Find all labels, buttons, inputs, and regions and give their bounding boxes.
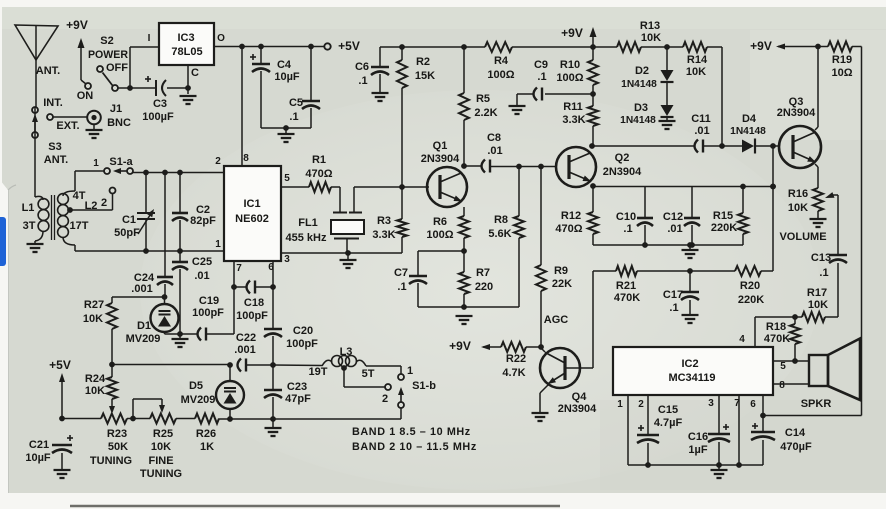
svg-text:C12: C12 [663, 211, 683, 223]
svg-text:1N4148: 1N4148 [621, 79, 657, 90]
label R10 [560, 59, 580, 71]
label 3T [23, 220, 36, 232]
svg-text:IC1: IC1 [243, 198, 260, 210]
svg-text:O: O [217, 33, 225, 44]
svg-text:R16: R16 [788, 188, 808, 200]
svg-text:C20: C20 [293, 325, 313, 337]
svg-text:3T: 3T [23, 220, 36, 232]
svg-text:R7: R7 [476, 267, 490, 279]
value 10K of R27 [83, 313, 103, 325]
label C17 [663, 289, 683, 301]
label D5 [189, 380, 203, 392]
wire throw1 to L2 top [75, 171, 104, 191]
part 2N3904 of Q2 [603, 166, 642, 178]
label OFF [106, 62, 128, 74]
IC2 pin 8 label [779, 380, 785, 391]
label C23 [287, 381, 307, 393]
label J1 [110, 103, 122, 115]
label C16 [688, 431, 708, 443]
svg-text:10µF: 10µF [25, 452, 51, 464]
IC3 pin C label [191, 67, 199, 79]
switch S1-a common [127, 168, 133, 174]
switch S3 bottom contact [32, 132, 38, 138]
svg-text:8: 8 [779, 380, 785, 391]
svg-text:C3: C3 [153, 98, 167, 110]
value 10ohm [831, 67, 852, 79]
resistor R7 [459, 251, 469, 307]
capacitor C5 [302, 47, 320, 129]
label R11 [563, 101, 583, 113]
IC1 part number NE602 [235, 213, 269, 225]
value .01 of C11 [694, 125, 709, 137]
value 10K of R16 [788, 202, 808, 214]
wire IC1 pin7 column [231, 261, 237, 334]
svg-text:Q2: Q2 [615, 152, 630, 164]
svg-text:MV209: MV209 [126, 333, 161, 345]
value .01 of C25 [194, 270, 209, 282]
capacitor C15 [637, 395, 659, 465]
+9V arrow [78, 38, 87, 84]
transistor Q1 [427, 167, 467, 207]
switch S1-a throw 2 [110, 188, 116, 194]
label C14 [785, 427, 806, 439]
label Q1 [433, 140, 448, 152]
value 1K [200, 441, 214, 453]
IC2 pin 5 label [780, 361, 786, 372]
node R6/R7 junction [461, 248, 467, 254]
resistor R14 [683, 42, 707, 52]
resistor R20 [735, 266, 761, 276]
label 2 of S1-b [382, 393, 388, 405]
wire IC1 pin5 [281, 186, 309, 188]
wire tuning line [109, 362, 229, 368]
svg-text:C6: C6 [355, 61, 369, 73]
svg-text:J1: J1 [110, 103, 122, 115]
svg-text:R13: R13 [640, 20, 660, 32]
svg-text:C17: C17 [663, 289, 683, 301]
IC2 pin 7 label [734, 398, 740, 409]
label Q3 [789, 96, 804, 108]
IC1 pin 5 label [284, 173, 290, 184]
svg-text:.01: .01 [194, 270, 209, 282]
svg-text:R11: R11 [563, 101, 583, 113]
wire Q4 emitter to ground [540, 385, 548, 412]
svg-text:.001: .001 [234, 344, 255, 356]
svg-text:1: 1 [617, 399, 623, 410]
label R13 [640, 20, 660, 32]
svg-text:R17: R17 [807, 287, 827, 299]
ground under C21 [54, 470, 71, 478]
diode D3 [661, 83, 674, 117]
ground under C6 [372, 93, 389, 101]
svg-text:SPKR: SPKR [801, 398, 832, 410]
label BAND 2 [352, 441, 477, 453]
svg-text:R18: R18 [766, 321, 786, 333]
capacitor C7 [409, 251, 464, 307]
label R20 [740, 280, 760, 292]
wire R21 to C17 node [637, 268, 735, 274]
value 10uF [274, 71, 300, 83]
value 50pF [114, 227, 140, 239]
switch S2 ON contact [85, 83, 91, 89]
transistor Q4 [540, 348, 580, 388]
wire Q2 collector node [589, 143, 595, 149]
capacitor C10 [637, 186, 653, 245]
label R3 [377, 215, 391, 227]
label R24 [85, 373, 106, 385]
value 1N4148 of D3 [620, 115, 656, 126]
label 5T [362, 368, 375, 380]
svg-text:R14: R14 [687, 54, 708, 66]
label C2 [196, 204, 210, 216]
wire IC2 pin1 [628, 395, 763, 468]
resistor R19 [828, 42, 852, 52]
value .1 of C13 [819, 267, 828, 279]
wire IC2 pin7 [738, 395, 740, 465]
resistor R10 [588, 47, 598, 94]
value 100pF of C18 [236, 310, 268, 322]
label 1 of S1-a [93, 158, 99, 169]
inductor L1 [35, 107, 49, 243]
connector J1 BNC [87, 111, 101, 125]
label C3 [153, 98, 167, 110]
diode D2 [661, 47, 674, 82]
svg-text:100pF: 100pF [236, 310, 268, 322]
svg-text:TUNING: TUNING [140, 468, 182, 480]
label +5V [338, 39, 360, 53]
wire +5V rail [214, 44, 324, 50]
svg-text:+9V: +9V [66, 18, 88, 32]
svg-text:5: 5 [780, 361, 786, 372]
svg-text:19T: 19T [309, 366, 328, 378]
value .1 of C5 [289, 111, 298, 123]
value 82pF [190, 215, 216, 227]
capacitor C14 [751, 415, 775, 465]
svg-text:1K: 1K [200, 441, 214, 453]
svg-text:NE602: NE602 [235, 213, 269, 225]
capacitor C16 [708, 395, 730, 465]
svg-text:100Ω: 100Ω [426, 229, 453, 241]
inductor L3 [273, 356, 401, 367]
svg-text:1µF: 1µF [688, 444, 707, 456]
wire C9 to ground [517, 94, 533, 105]
capacitor C2 [172, 173, 188, 252]
svg-text:3: 3 [708, 398, 714, 409]
wire emitter bypass rail [593, 242, 743, 248]
label S1-a [109, 156, 133, 168]
value 50K [108, 441, 128, 453]
svg-text:FINE: FINE [148, 455, 173, 467]
svg-text:MC34119: MC34119 [668, 372, 715, 384]
resistor R27 [107, 297, 117, 364]
R25 wiper bracket [133, 399, 165, 419]
ground under FL1 rail [340, 253, 357, 268]
transistor Q2 [556, 147, 596, 187]
svg-text:10K: 10K [808, 299, 828, 311]
value 470ohm of R12 [555, 223, 582, 235]
svg-text:455 kHz: 455 kHz [286, 232, 327, 244]
wire R14 to C11 column [707, 47, 722, 146]
label C20 [293, 325, 313, 337]
ground under C4/C5 [278, 128, 295, 142]
label C12 [663, 211, 683, 223]
value 22K [552, 278, 572, 290]
ground under R16 [810, 219, 827, 227]
value 4.7uF [654, 417, 683, 429]
resistor R13 [617, 42, 641, 52]
capacitor C3 [145, 76, 166, 96]
label R27 [84, 299, 104, 311]
value .001 of C24 [131, 283, 152, 295]
label S1-b [412, 380, 436, 392]
value 100ohm of R10 [556, 72, 583, 84]
varactor diode D5 [216, 362, 244, 419]
svg-text:4.7K: 4.7K [502, 367, 525, 379]
svg-text:2N3904: 2N3904 [558, 403, 597, 415]
resistor R22 [501, 342, 526, 352]
svg-text:C: C [191, 67, 199, 79]
label C5 [289, 97, 303, 109]
IC2 pin 1 label [617, 399, 623, 410]
label ON [77, 90, 94, 102]
svg-text:220K: 220K [711, 222, 737, 234]
svg-text:C4: C4 [277, 59, 292, 71]
label R26 [196, 428, 216, 440]
wire EXT to BNC [53, 116, 87, 118]
capacitor C25 [172, 251, 188, 334]
label R19 [832, 54, 852, 66]
capacitor C4 [250, 47, 270, 129]
svg-text:AGC: AGC [544, 314, 569, 326]
svg-text:7: 7 [236, 263, 242, 274]
svg-text:D3: D3 [634, 102, 648, 114]
label FINE [148, 455, 173, 467]
svg-text:.001: .001 [131, 283, 152, 295]
label R21 [616, 280, 636, 292]
resistor R6 [459, 207, 469, 251]
switch S2 common contact [112, 85, 118, 91]
label R8 [494, 214, 508, 226]
wire R23 to R25 [127, 416, 150, 422]
svg-text:C7: C7 [394, 267, 408, 279]
label C21 [29, 439, 49, 451]
potentiometer R25 [150, 414, 176, 424]
svg-text:R1: R1 [312, 154, 326, 166]
svg-text:D1: D1 [137, 320, 151, 332]
IC1 pin 7 label [236, 263, 242, 274]
capacitor C12 [684, 186, 700, 245]
value .1 of C17 [669, 302, 678, 314]
wire Q4 collector to AGC node [541, 348, 545, 352]
switch S1-b throw 1 [398, 374, 404, 380]
svg-text:+9V: +9V [449, 339, 471, 353]
resistor R24 [107, 365, 117, 408]
wire R17 to IC2 pin4 [755, 314, 798, 347]
value 220K of R15 [711, 222, 737, 234]
svg-text:5: 5 [284, 173, 290, 184]
svg-text:S1-b: S1-b [412, 380, 436, 392]
label R7 [476, 267, 490, 279]
label VOLUME [779, 231, 826, 243]
IC3 part number 78L05 [171, 46, 202, 58]
wire R21 segment [593, 270, 616, 272]
wire top rail R4 section [461, 44, 485, 50]
blue sidebar element [0, 217, 6, 266]
audio amplifier IC2 box [613, 347, 773, 395]
svg-text:10K: 10K [83, 313, 103, 325]
svg-text:100Ω: 100Ω [556, 72, 583, 84]
label R14 [687, 54, 708, 66]
svg-text:Q1: Q1 [433, 140, 448, 152]
label R6 [433, 216, 447, 228]
svg-text:.1: .1 [623, 223, 632, 235]
svg-text:+5V: +5V [338, 39, 360, 53]
label 17T [70, 220, 89, 232]
ground under IC2 [711, 465, 728, 478]
label S2 [100, 35, 113, 47]
svg-text:470Ω: 470Ω [555, 223, 582, 235]
wire Q4 base [566, 271, 593, 368]
antenna label ANT. [36, 65, 60, 77]
value 10K of R14 [686, 66, 706, 78]
wire tuning pot rail left [59, 416, 101, 422]
label C24 [134, 272, 155, 284]
svg-text:R15: R15 [713, 210, 733, 222]
wire R20 to detector node [761, 146, 776, 271]
svg-text:POWER: POWER [88, 49, 128, 61]
wire varactor D1 node [112, 294, 167, 300]
label R2 [416, 56, 430, 68]
ground under D3 [659, 117, 676, 129]
value 2.2K [474, 107, 497, 119]
svg-text:78L05: 78L05 [171, 46, 202, 58]
wire C8 to Q2 base [490, 164, 556, 170]
wire L3 tap [341, 365, 385, 387]
variable capacitor C1 [137, 173, 155, 252]
svg-text:1N4148: 1N4148 [620, 115, 656, 126]
svg-text:3.3K: 3.3K [372, 229, 395, 241]
svg-text:C1: C1 [122, 214, 136, 226]
IC3 label [177, 32, 194, 44]
part MV209 of D5 [181, 394, 216, 406]
svg-text:2N3904: 2N3904 [421, 153, 460, 165]
svg-text:R12: R12 [561, 210, 581, 222]
svg-text:6: 6 [750, 399, 756, 410]
svg-text:I: I [148, 33, 151, 44]
label D2 [635, 65, 649, 77]
switch S1-a throw 1 [104, 168, 110, 174]
svg-text:R26: R26 [196, 428, 216, 440]
wire IC2 pin6 to C14 [760, 395, 766, 418]
svg-text:C14: C14 [785, 427, 806, 439]
svg-text:FL1: FL1 [298, 217, 318, 229]
potentiometer R23 [101, 414, 127, 424]
wire tank top to IC1 pin 2 [133, 170, 224, 176]
value 470K of R18 [764, 333, 790, 345]
label 4T [73, 190, 86, 202]
wire R22 to AGC node [526, 344, 544, 350]
value .1 of C7 [397, 281, 406, 293]
R16 wiper arrow [825, 192, 838, 255]
wire Q3 emitter to R16 [815, 164, 818, 188]
svg-text:2: 2 [382, 393, 388, 405]
value 10K of R13 [641, 32, 661, 44]
svg-text:1: 1 [407, 365, 413, 377]
IC2 pin 6 label [750, 399, 756, 410]
ground under IC3 [180, 96, 197, 104]
svg-text:470K: 470K [614, 292, 640, 304]
label C6 [355, 61, 369, 73]
svg-text:S3: S3 [48, 141, 61, 153]
resistor R8 [514, 166, 524, 307]
label EXT. [56, 120, 79, 132]
wire Q2 emitter node [590, 183, 596, 189]
value 470uF [780, 441, 812, 453]
svg-text:1: 1 [93, 158, 99, 169]
svg-text:D2: D2 [635, 65, 649, 77]
wire IC1 pin3 rail [281, 250, 402, 256]
label L2 [85, 200, 98, 212]
svg-text:R23: R23 [107, 428, 127, 440]
svg-text:BAND 2 10 – 11.5 MHz: BAND 2 10 – 11.5 MHz [352, 441, 477, 453]
svg-text:3.3K: 3.3K [562, 114, 585, 126]
wire FL1 to Q1 base [354, 184, 429, 212]
svg-text:C15: C15 [658, 404, 678, 416]
svg-text:D4: D4 [742, 113, 757, 125]
svg-text:C10: C10 [616, 211, 636, 223]
value 47pF [285, 393, 311, 405]
label AGC [544, 314, 569, 326]
switch S2 OFF contact [97, 66, 103, 72]
wire IC2 pin8 to speaker [773, 383, 809, 385]
svg-text:5.6K: 5.6K [488, 228, 511, 240]
value 3.3K of R3 [372, 229, 395, 241]
label C10 [616, 211, 636, 223]
diode D4 [742, 139, 755, 154]
label R23 [107, 428, 127, 440]
svg-text:50pF: 50pF [114, 227, 140, 239]
label 19T [309, 366, 328, 378]
part 2N3904 of Q4 [558, 403, 597, 415]
label C15 [658, 404, 678, 416]
svg-text:22K: 22K [552, 278, 572, 290]
switch S1-b wiper arrow [398, 387, 404, 402]
label SPKR [801, 398, 832, 410]
label TUNING of R25 [140, 468, 182, 480]
svg-text:BNC: BNC [107, 117, 131, 129]
svg-text:10K: 10K [641, 32, 661, 44]
bottom white band [0, 493, 886, 509]
label C9 [534, 59, 548, 71]
svg-text:82pF: 82pF [190, 215, 216, 227]
terminal +5V [324, 43, 330, 49]
IC1 pin 1 label [215, 239, 221, 250]
svg-text:1: 1 [215, 239, 221, 250]
ground under C9 [509, 106, 526, 114]
svg-text:.1: .1 [537, 71, 546, 83]
label C1 [122, 214, 136, 226]
svg-text:C19: C19 [199, 295, 219, 307]
capacitor C6 [371, 47, 389, 92]
svg-text:R19: R19 [832, 54, 852, 66]
svg-text:4.7µF: 4.7µF [654, 417, 683, 429]
ground under L1 [27, 244, 44, 252]
switch S1-b throw 2 [385, 384, 391, 390]
label R17 [807, 287, 827, 299]
svg-text:R25: R25 [153, 428, 173, 440]
IC1 pin 3 label [284, 254, 290, 265]
ground under J1 [86, 124, 103, 138]
